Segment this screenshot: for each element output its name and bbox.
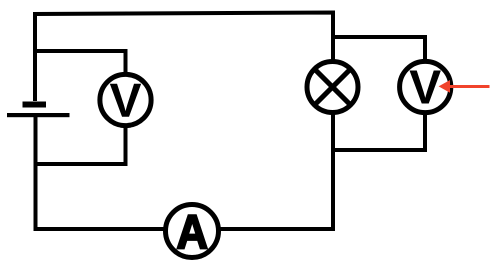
wire: below battery vertical + bottom left horizontal xyxy=(36,116,165,229)
voltmeter V2 xyxy=(400,61,451,112)
lamp L1 xyxy=(307,62,358,113)
battery cell xyxy=(7,102,70,118)
wire: voltmeter V2 top branch xyxy=(333,37,425,61)
wire: bottom right horizontal + right vertical to lamp xyxy=(220,114,333,229)
wire: voltmeter V1 bottom branch xyxy=(34,127,126,164)
voltmeter V1 xyxy=(100,74,151,125)
ammeter A1 xyxy=(166,205,219,258)
red arrow pointing at voltmeter V2 xyxy=(439,80,490,93)
wire: voltmeter V1 top branch xyxy=(34,51,126,73)
wire: battery top vertical, top horizontal, lamp top drop xyxy=(35,13,333,102)
wire: voltmeter V2 bottom branch xyxy=(331,114,425,150)
